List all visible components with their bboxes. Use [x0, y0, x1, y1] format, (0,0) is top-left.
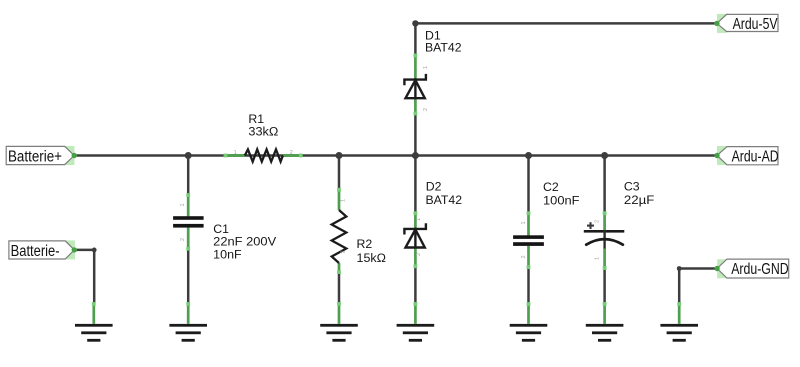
svg-text:2: 2	[341, 250, 347, 253]
svg-text:1: 1	[416, 218, 422, 221]
svg-text:Batterie-: Batterie-	[11, 243, 60, 260]
svg-text:2: 2	[595, 220, 601, 223]
svg-text:2: 2	[180, 238, 186, 241]
svg-text:2: 2	[416, 253, 422, 256]
svg-text:Ardu-5V: Ardu-5V	[733, 16, 779, 33]
svg-text:C1: C1	[213, 222, 229, 236]
svg-text:2: 2	[290, 150, 293, 156]
svg-text:R2: R2	[357, 237, 373, 251]
svg-text:Ardu-GND: Ardu-GND	[731, 261, 789, 278]
svg-text:22µF: 22µF	[624, 193, 655, 207]
svg-text:15kΩ: 15kΩ	[357, 251, 387, 265]
svg-text:1: 1	[595, 257, 601, 260]
svg-text:1: 1	[341, 199, 347, 202]
svg-text:BAT42: BAT42	[426, 193, 463, 207]
svg-text:Ardu-AD: Ardu-AD	[732, 148, 779, 165]
svg-text:2: 2	[423, 108, 429, 111]
svg-text:C3: C3	[624, 180, 640, 194]
svg-text:33kΩ: 33kΩ	[248, 125, 278, 139]
svg-text:C2: C2	[543, 180, 559, 194]
svg-text:Batterie+: Batterie+	[8, 148, 62, 165]
svg-text:1: 1	[423, 66, 429, 69]
svg-text:D2: D2	[426, 179, 442, 193]
svg-text:10nF: 10nF	[213, 248, 242, 262]
svg-text:100nF: 100nF	[543, 194, 580, 208]
svg-text:BAT42: BAT42	[425, 41, 462, 55]
svg-text:1: 1	[234, 150, 237, 156]
svg-text:1: 1	[180, 203, 186, 206]
svg-text:2: 2	[521, 255, 527, 258]
svg-text:1: 1	[521, 221, 527, 224]
